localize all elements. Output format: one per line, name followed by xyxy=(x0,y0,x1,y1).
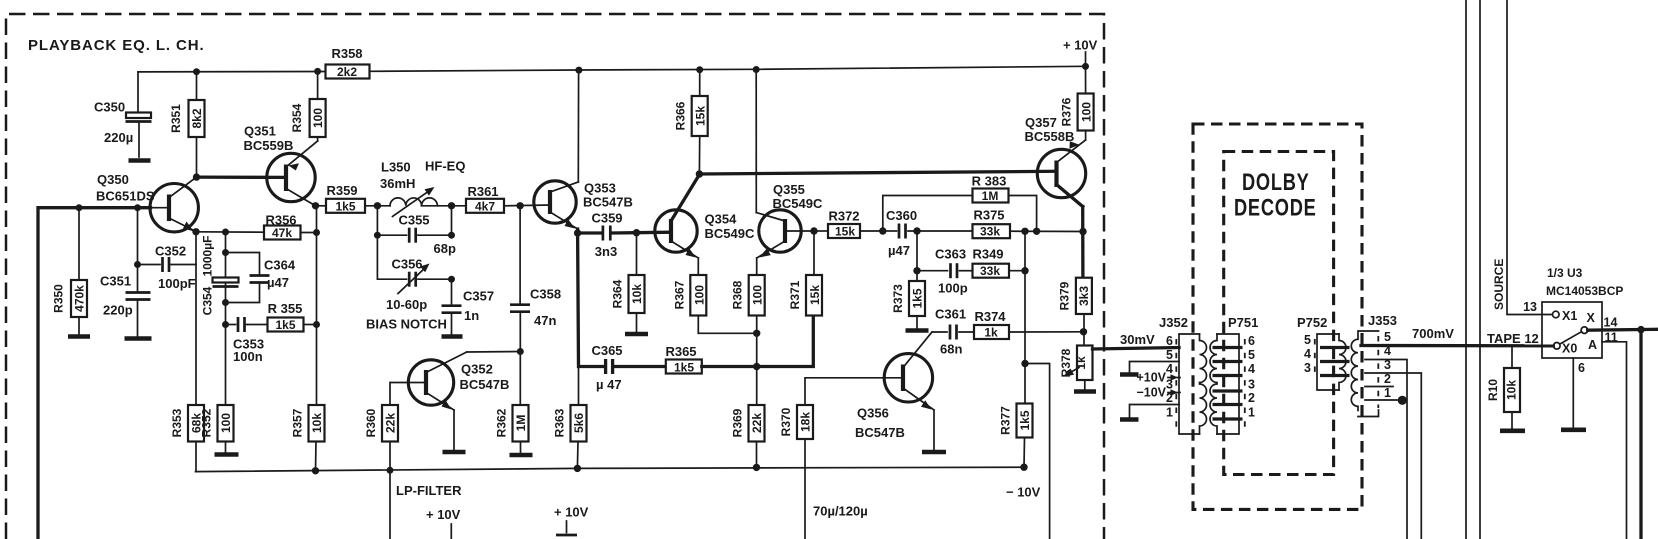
svg-text:700mV: 700mV xyxy=(1412,326,1454,341)
transistor Q354 BC549C xyxy=(655,210,697,252)
svg-text:1k5: 1k5 xyxy=(911,288,925,308)
capacitor C351 220p xyxy=(137,208,139,292)
svg-text:BC547B: BC547B xyxy=(460,377,510,392)
svg-text:100: 100 xyxy=(693,285,707,305)
svg-text:HF-EQ: HF-EQ xyxy=(425,159,465,174)
wire Q350 emitter node row xyxy=(192,228,199,235)
svg-text:µ47: µ47 xyxy=(267,275,289,290)
svg-text:22k: 22k xyxy=(750,413,764,433)
resistor R383 1M xyxy=(973,189,1009,203)
svg-text:MC14053BCP: MC14053BCP xyxy=(1546,284,1623,298)
svg-text:Q351: Q351 xyxy=(244,124,276,139)
svg-text:C352: C352 xyxy=(155,244,186,259)
wire switch pin6 to ground xyxy=(1572,358,1574,427)
svg-text:− 10V: − 10V xyxy=(1006,485,1041,500)
wire Q352 collector to C358 xyxy=(467,351,521,354)
svg-text:R375: R375 xyxy=(973,208,1004,223)
svg-text:µ47: µ47 xyxy=(888,243,910,258)
svg-text:C360: C360 xyxy=(886,208,917,223)
svg-text:100: 100 xyxy=(311,108,325,128)
svg-text:BC559B: BC559B xyxy=(244,138,294,153)
svg-text:BC549C: BC549C xyxy=(705,226,755,241)
svg-text:1k5: 1k5 xyxy=(674,361,694,375)
svg-text:10-60p: 10-60p xyxy=(386,297,427,312)
svg-text:C364: C364 xyxy=(264,258,296,273)
svg-text:Q353: Q353 xyxy=(584,181,616,196)
transistor Q350 BC651DS xyxy=(150,184,198,232)
svg-text:Q354: Q354 xyxy=(705,212,738,227)
resistor R356 47k xyxy=(264,226,301,240)
capacitor C364 u47 xyxy=(226,253,260,275)
+10V supply rail (top) xyxy=(138,71,326,73)
input wire (left, heavy) xyxy=(38,208,151,539)
wire branch to bottom right xyxy=(1025,364,1050,539)
svg-text:C357: C357 xyxy=(463,289,494,304)
svg-text:PLAYBACK EQ. L. CH.: PLAYBACK EQ. L. CH. xyxy=(28,37,205,54)
svg-text:3: 3 xyxy=(1248,378,1255,392)
capacitor C352 100pF xyxy=(134,261,141,268)
svg-text:X: X xyxy=(1587,311,1596,325)
svg-text:47n: 47n xyxy=(534,313,556,328)
svg-text:J352: J352 xyxy=(1159,315,1188,330)
resistor R349 33k xyxy=(973,264,1010,278)
svg-text:10k: 10k xyxy=(310,413,324,433)
resistor R378 1k (trimmer) xyxy=(1077,346,1093,381)
svg-text:R358: R358 xyxy=(331,46,362,61)
svg-text:L350: L350 xyxy=(381,160,411,175)
wire Q355 collector to rail xyxy=(755,70,757,213)
svg-text:X1: X1 xyxy=(1562,309,1577,323)
svg-text:1: 1 xyxy=(1166,406,1173,420)
resistor R376 100 xyxy=(1085,66,1087,93)
svg-text:22k: 22k xyxy=(384,413,398,433)
svg-text:13: 13 xyxy=(1523,300,1537,314)
svg-text:15k: 15k xyxy=(694,106,708,126)
svg-text:R368: R368 xyxy=(731,280,745,309)
svg-text:1/3 U3: 1/3 U3 xyxy=(1547,266,1583,280)
svg-text:R367: R367 xyxy=(673,280,687,309)
wire Q356 base row xyxy=(805,378,884,405)
svg-text:33k: 33k xyxy=(980,264,1000,278)
DOLBY DECODE outer dashed box xyxy=(1193,124,1362,509)
capacitor C365 u47 xyxy=(604,359,607,374)
svg-text:−10V: −10V xyxy=(1136,386,1166,400)
svg-text:470k: 470k xyxy=(73,285,87,312)
svg-text:+ 10V: + 10V xyxy=(1063,38,1098,53)
svg-text:4: 4 xyxy=(1304,347,1311,361)
svg-text:1: 1 xyxy=(1248,406,1255,420)
wire J353 pin4 down xyxy=(1365,360,1407,539)
wire J353 pin3 down xyxy=(1365,373,1421,539)
svg-text:Q352: Q352 xyxy=(461,362,493,377)
svg-text:1k5: 1k5 xyxy=(1018,410,1032,430)
svg-text:R 355: R 355 xyxy=(268,301,303,316)
wire R383 feedback loop left side xyxy=(883,196,973,232)
svg-text:R371: R371 xyxy=(788,280,802,309)
svg-text:P752: P752 xyxy=(1297,315,1327,330)
resistor R368 100 xyxy=(749,275,765,316)
resistor R370 18k xyxy=(797,405,813,439)
bus wire vertical 2 xyxy=(1479,0,1481,539)
svg-text:33k: 33k xyxy=(980,225,1000,239)
wire output X pin14 (heavy) xyxy=(1588,328,1658,332)
playback eq dashed border box xyxy=(6,14,1104,539)
svg-text:18k: 18k xyxy=(799,412,813,432)
wire Q350 collector to Q351 base (heavy) xyxy=(193,173,200,180)
resistor R360 22k xyxy=(382,405,398,442)
wire LP row (bottom common) xyxy=(196,467,1025,471)
bus wire vertical 1 xyxy=(1465,0,1467,539)
svg-text:1: 1 xyxy=(1384,386,1391,400)
switch arm xyxy=(1560,332,1582,344)
svg-text:5k6: 5k6 xyxy=(572,413,586,433)
svg-text:2: 2 xyxy=(1248,391,1255,405)
svg-text:Q355: Q355 xyxy=(773,182,805,197)
svg-text:10k: 10k xyxy=(630,284,644,304)
wire J353 pin2 stub xyxy=(1365,386,1393,388)
common contact X xyxy=(1581,327,1588,334)
svg-text:14: 14 xyxy=(1604,316,1618,330)
svg-text:R365: R365 xyxy=(665,344,696,359)
svg-text:µ 47: µ 47 xyxy=(596,377,622,392)
wire C363 branch xyxy=(916,231,918,271)
svg-text:+10V: +10V xyxy=(1136,371,1166,385)
capacitor C354 1000uF (electrolytic) xyxy=(213,278,239,283)
svg-text:BC651DS: BC651DS xyxy=(96,189,155,204)
wire 700mV line (J353 pin5 to switch X0, heavy) xyxy=(1361,344,1553,348)
svg-text:BC547B: BC547B xyxy=(855,425,905,440)
svg-text:6: 6 xyxy=(1248,334,1255,348)
svg-text:220p: 220p xyxy=(103,303,133,318)
svg-text:C356: C356 xyxy=(391,257,422,272)
node: rail junction dots xyxy=(193,68,200,75)
resistor R365 1k5 xyxy=(666,360,702,374)
svg-text:R369: R369 xyxy=(731,408,745,437)
svg-text:1M: 1M xyxy=(514,415,528,432)
capacitor C359 3n3 xyxy=(602,226,605,241)
svg-text:68p: 68p xyxy=(434,241,456,256)
svg-text:2: 2 xyxy=(1384,372,1391,386)
wire Q351 collector line down xyxy=(312,202,319,209)
svg-text:C355: C355 xyxy=(398,213,429,228)
svg-text:R349: R349 xyxy=(972,247,1003,262)
resistor R371 15k xyxy=(810,227,817,234)
svg-text:1k5: 1k5 xyxy=(275,318,295,332)
svg-text:1k5: 1k5 xyxy=(335,200,355,214)
resistor R350 470k xyxy=(78,208,80,280)
svg-text:C361: C361 xyxy=(935,307,966,322)
svg-text:Q356: Q356 xyxy=(857,406,889,421)
wire R365 to R371 (heavy) xyxy=(702,316,814,367)
svg-text:BC549C: BC549C xyxy=(773,196,823,211)
svg-text:BC547B: BC547B xyxy=(583,195,633,210)
svg-text:DECODE: DECODE xyxy=(1234,194,1317,221)
svg-text:BIAS NOTCH: BIAS NOTCH xyxy=(366,317,447,332)
svg-text:TAPE 12: TAPE 12 xyxy=(1487,331,1539,346)
svg-text:36mH: 36mH xyxy=(380,176,415,191)
resistor R375 33k xyxy=(973,224,1011,238)
capacitor C353 100n xyxy=(226,324,236,326)
transistor Q351 BC559B xyxy=(267,153,315,201)
wire J352 pin5 to ground xyxy=(1130,362,1180,373)
wire Q353 emitter node xyxy=(578,229,601,233)
DOLBY DECODE inner dashed box xyxy=(1224,152,1334,475)
wire R375 out to collector line xyxy=(1010,230,1083,232)
svg-text:10k: 10k xyxy=(1505,380,1519,400)
svg-text:R374: R374 xyxy=(974,309,1006,324)
svg-text:C365: C365 xyxy=(591,343,622,358)
svg-text:R372: R372 xyxy=(828,209,859,224)
svg-text:8k2: 8k2 xyxy=(190,108,204,128)
svg-text:R359: R359 xyxy=(326,183,357,198)
svg-text:R351: R351 xyxy=(169,104,183,133)
wire Q353 collector to rail xyxy=(577,70,579,182)
resistor R355 1k5 xyxy=(268,318,304,332)
svg-text:DOLBY: DOLBY xyxy=(1242,169,1310,196)
svg-text:R376: R376 xyxy=(1060,97,1074,126)
svg-text:5: 5 xyxy=(1304,333,1311,347)
svg-text:C363: C363 xyxy=(935,247,966,262)
svg-text:4k7: 4k7 xyxy=(475,200,495,214)
svg-text:1M: 1M xyxy=(982,189,999,203)
wire J353 pin1 with terminal dot xyxy=(1365,399,1397,401)
svg-text:R364: R364 xyxy=(611,279,625,308)
svg-text:+ 10V: + 10V xyxy=(554,505,589,520)
svg-text:100: 100 xyxy=(1080,102,1094,122)
contact X0 xyxy=(1554,343,1561,350)
svg-text:C354: C354 xyxy=(201,286,215,315)
svg-text:100p: 100p xyxy=(938,281,968,296)
resistor R361 4k7 xyxy=(466,199,504,213)
svg-text:220µ: 220µ xyxy=(104,130,133,145)
capacitor C361 68n xyxy=(932,331,947,333)
resistor R351 8k2 xyxy=(196,72,198,100)
wire R367/R368 emitter join xyxy=(698,316,756,334)
resistor R358 2k2 (in series with rail) xyxy=(326,65,370,79)
svg-text:5: 5 xyxy=(1384,330,1391,344)
wire emitter branch down (R353 line) xyxy=(195,232,197,405)
svg-text:R350: R350 xyxy=(52,284,66,313)
svg-text:+ 10V: + 10V xyxy=(426,507,461,522)
svg-text:R377: R377 xyxy=(999,406,1013,435)
svg-text:R352: R352 xyxy=(200,408,214,437)
svg-text:R366: R366 xyxy=(674,101,688,130)
svg-text:1k: 1k xyxy=(984,326,998,340)
svg-text:6: 6 xyxy=(1166,334,1173,348)
svg-text:6: 6 xyxy=(1578,361,1585,375)
svg-text:Q357: Q357 xyxy=(1025,115,1057,130)
svg-text:100: 100 xyxy=(751,285,765,305)
svg-text:C359: C359 xyxy=(591,211,622,226)
svg-text:R354: R354 xyxy=(290,103,304,132)
wire C354 branch down xyxy=(225,232,227,405)
svg-text:BC558B: BC558B xyxy=(1025,129,1075,144)
svg-text:R 383: R 383 xyxy=(972,174,1007,189)
svg-text:100: 100 xyxy=(219,413,233,433)
transistor Q356 BC547B xyxy=(884,354,932,402)
svg-text:3n3: 3n3 xyxy=(595,244,617,259)
wire pin11 A down xyxy=(1602,342,1627,539)
svg-text:R361: R361 xyxy=(467,184,498,199)
svg-text:R363: R363 xyxy=(553,408,567,437)
wire J352 pin2 to ground xyxy=(1130,405,1180,418)
resistor R379 3k3 xyxy=(1076,278,1092,314)
resistor R369 22k xyxy=(749,405,765,442)
svg-text:3: 3 xyxy=(1304,361,1311,375)
wire heavy vertical down right xyxy=(1639,330,1642,539)
svg-text:70µ/120µ: 70µ/120µ xyxy=(813,504,868,519)
svg-text:C358: C358 xyxy=(530,287,561,302)
svg-text:C350: C350 xyxy=(94,100,125,115)
capacitor C356 10-60p (variable, BIAS NOTCH) xyxy=(377,235,406,279)
svg-text:R373: R373 xyxy=(891,284,905,313)
capacitor C363 100p xyxy=(949,263,952,278)
resistor R373 1k5 xyxy=(916,271,918,281)
wire heavy row to Q357 base xyxy=(696,170,703,177)
svg-text:1n: 1n xyxy=(464,308,479,323)
svg-text:R379: R379 xyxy=(1058,281,1072,310)
wire 30mV output line (heavy) xyxy=(1093,348,1180,350)
resistor R367 100 xyxy=(697,258,699,275)
contact X1 xyxy=(1553,311,1560,318)
svg-text:SOURCE: SOURCE xyxy=(1492,259,1506,310)
resistor R362 1M xyxy=(519,352,521,406)
resistor R353 68k xyxy=(188,405,204,442)
svg-text:1k: 1k xyxy=(1074,356,1088,370)
SOURCE line into switch pin 13 xyxy=(1507,0,1552,315)
svg-text:A: A xyxy=(1588,338,1597,352)
svg-text:47k: 47k xyxy=(272,226,292,240)
svg-text:R357: R357 xyxy=(291,408,305,437)
transistor Q357 BC558B xyxy=(1037,149,1085,197)
svg-text:LP-FILTER: LP-FILTER xyxy=(396,483,462,498)
resistor R364 10k xyxy=(636,233,638,275)
resistor R357 10k xyxy=(309,405,325,442)
capacitor C358 47n xyxy=(519,206,521,303)
capacitor C360 u47 xyxy=(883,230,897,232)
wire Q352 base to R360 xyxy=(390,383,409,406)
wire R349 node vertical xyxy=(1024,231,1026,403)
svg-text:R370: R370 xyxy=(779,407,793,436)
resistor R354 100 xyxy=(317,71,319,99)
node C360 input xyxy=(879,227,886,234)
svg-text:1000µF: 1000µF xyxy=(201,236,215,277)
wire LP-filter line down xyxy=(389,442,391,539)
transistor Q352 BC547B xyxy=(408,360,453,405)
svg-text:P751: P751 xyxy=(1228,315,1258,330)
resistor R10 10k xyxy=(1511,346,1513,368)
wire Q357 collector down (heavy) xyxy=(1081,207,1085,278)
svg-text:C351: C351 xyxy=(100,274,131,289)
svg-text:5: 5 xyxy=(1166,348,1173,362)
svg-text:R353: R353 xyxy=(170,408,184,437)
svg-text:100n: 100n xyxy=(233,349,263,364)
capacitor C350 220u xyxy=(137,72,139,113)
resistor R366 15k xyxy=(699,70,701,96)
resistor R372 15k xyxy=(814,230,828,232)
capacitor C355 68p (parallel branch) xyxy=(377,206,406,235)
svg-text:R10: R10 xyxy=(1486,379,1500,401)
svg-text:15k: 15k xyxy=(808,285,822,305)
transistor Q355 BC549C (mirrored) xyxy=(759,210,801,252)
svg-text:2k2: 2k2 xyxy=(337,65,357,79)
svg-text:68n: 68n xyxy=(940,342,962,357)
svg-text:R362: R362 xyxy=(495,408,509,437)
svg-text:4: 4 xyxy=(1248,362,1255,376)
svg-text:3k3: 3k3 xyxy=(1077,286,1091,306)
svg-text:X0: X0 xyxy=(1562,342,1577,356)
capacitor C357 1n xyxy=(451,279,453,304)
svg-text:R360: R360 xyxy=(364,408,378,437)
svg-text:30mV: 30mV xyxy=(1120,332,1155,347)
resistor R377 1k5 xyxy=(1017,404,1033,438)
svg-text:Q350: Q350 xyxy=(97,172,129,187)
resistor R359 1k5 xyxy=(316,205,327,207)
wire Q353 emitter feedback line down (heavy) xyxy=(578,233,603,367)
transistor Q353 BC547B xyxy=(534,181,576,223)
svg-text:100pF: 100pF xyxy=(158,276,196,291)
svg-text:J353: J353 xyxy=(1368,313,1397,328)
resistor R374 1k xyxy=(974,325,1009,339)
svg-text:5: 5 xyxy=(1248,348,1255,362)
inductor L350 36mH (variable, HF-EQ) xyxy=(390,198,437,206)
svg-text:4: 4 xyxy=(1166,362,1173,376)
resistor R352 100 xyxy=(218,405,234,442)
resistor R363 5k6 xyxy=(578,367,580,406)
svg-text:15k: 15k xyxy=(835,225,855,239)
